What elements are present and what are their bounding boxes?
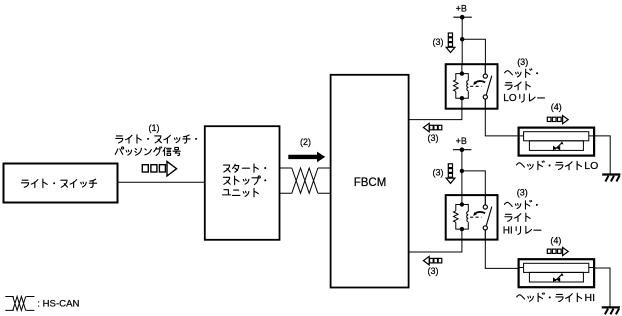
svg-text:(3): (3) [517, 188, 528, 198]
label (3) headlight LO relay [503, 57, 544, 104]
wire HI relay to headlight HI [485, 240, 518, 269]
svg-text:: HS-CAN: : HS-CAN [37, 298, 79, 309]
relay LO box [446, 64, 498, 109]
signal arrow (3) LO output [423, 123, 441, 132]
svg-text:(2): (2) [300, 137, 311, 147]
signal arrow (3) HI output [423, 256, 441, 265]
label headlight LO [516, 160, 598, 172]
svg-text:(3): (3) [428, 133, 439, 143]
svg-text:(3): (3) [517, 57, 528, 67]
svg-text:LO: LO [503, 93, 517, 104]
svg-text:(3): (3) [428, 266, 439, 276]
svg-text:LO: LO [584, 160, 598, 172]
FBCM box [331, 75, 409, 288]
ground LO [602, 175, 620, 182]
signal arrow (1) [142, 161, 176, 176]
relay LO actuation link [470, 85, 481, 87]
wire headlight LO to ground [594, 136, 610, 174]
light switch box [4, 164, 118, 203]
HS-CAN legend symbol [5, 297, 34, 311]
label headlight HI [517, 292, 595, 304]
svg-text:+B: +B [456, 3, 467, 13]
svg-text:+B: +B [456, 136, 467, 146]
headlight HI lens [519, 263, 595, 282]
+B supply HI [453, 136, 472, 195]
relay HI coil branch [454, 195, 469, 240]
svg-text:(1): (1) [149, 123, 160, 133]
node LO relay supply branch [460, 37, 485, 64]
wire light switch to start-stop unit [118, 181, 206, 183]
wire FBCM to HI relay coil [409, 240, 462, 252]
black arrow (2) [288, 152, 325, 163]
wire LO relay to headlight LO [485, 109, 518, 136]
start-stop unit box [205, 126, 280, 240]
svg-text:(4): (4) [550, 236, 561, 246]
headlight HI unit box [519, 259, 595, 287]
relay HI box [446, 195, 498, 240]
svg-text:(3): (3) [433, 37, 444, 47]
HS-CAN twisted pair wire [280, 168, 331, 193]
relay HI switch contacts [483, 195, 487, 240]
signal arrow (4) LO [547, 116, 568, 124]
headlight LO lens [519, 132, 595, 151]
svg-text:(3): (3) [433, 167, 444, 177]
svg-text:HI: HI [585, 292, 596, 304]
headlight LO bulb symbol [553, 141, 564, 150]
relay LO switch blade [486, 76, 492, 95]
headlight HI bulb symbol [553, 273, 564, 282]
relay LO switch contacts [483, 64, 487, 109]
svg-text:HI: HI [503, 226, 513, 237]
ground HI [602, 307, 620, 314]
label (1) light switch passing signal [115, 123, 197, 156]
relay LO coil branch [454, 64, 469, 109]
signal arrow (4) HI [547, 247, 568, 255]
+B supply LO [453, 3, 472, 64]
fuse arrow (3) LO [446, 33, 455, 53]
svg-text:(4): (4) [551, 102, 562, 112]
label (3) headlight HI relay [503, 188, 541, 237]
svg-text:FBCM: FBCM [354, 177, 387, 189]
node HI relay supply branch [460, 169, 486, 195]
wire headlight HI to ground [594, 268, 610, 307]
relay HI actuation link [470, 216, 481, 218]
relay HI switch blade [486, 207, 492, 226]
fuse arrow (3) HI [446, 164, 455, 184]
headlight LO unit box [519, 128, 595, 156]
wire FBCM to LO relay coil [409, 109, 462, 120]
